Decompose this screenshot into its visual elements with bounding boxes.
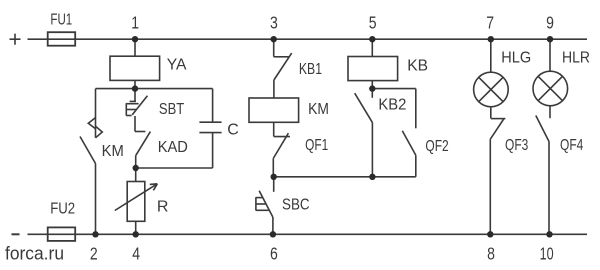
svg-text:9: 9	[546, 12, 554, 32]
svg-text:3: 3	[270, 12, 278, 32]
svg-text:KB1: KB1	[299, 61, 322, 78]
svg-text:SBT: SBT	[159, 101, 184, 118]
svg-text:R: R	[157, 199, 169, 216]
svg-text:HLR: HLR	[562, 49, 590, 66]
svg-text:7: 7	[486, 12, 494, 32]
svg-text:KB: KB	[407, 58, 428, 75]
svg-text:8: 8	[487, 244, 495, 264]
svg-text:1: 1	[131, 12, 139, 32]
svg-text:5: 5	[369, 12, 377, 32]
svg-text:SBC: SBC	[282, 197, 310, 214]
svg-text:KB2: KB2	[378, 97, 406, 114]
svg-text:KM: KM	[102, 143, 124, 160]
svg-text:YA: YA	[167, 57, 187, 74]
svg-text:forca.ru: forca.ru	[5, 244, 64, 264]
svg-text:KAD: KAD	[158, 139, 188, 156]
svg-text:FU2: FU2	[50, 201, 75, 218]
svg-text:4: 4	[132, 244, 140, 264]
svg-text:QF1: QF1	[305, 137, 328, 154]
svg-text:2: 2	[90, 244, 98, 264]
svg-text:FU1: FU1	[50, 12, 72, 29]
svg-text:QF4: QF4	[560, 137, 583, 154]
svg-text:HLG: HLG	[501, 49, 531, 66]
svg-text:QF2: QF2	[425, 138, 448, 155]
svg-text:C: C	[227, 121, 239, 138]
svg-text:KM: KM	[308, 101, 329, 118]
svg-text:10: 10	[540, 244, 554, 264]
svg-text:QF3: QF3	[505, 137, 528, 154]
svg-text:6: 6	[270, 244, 278, 264]
